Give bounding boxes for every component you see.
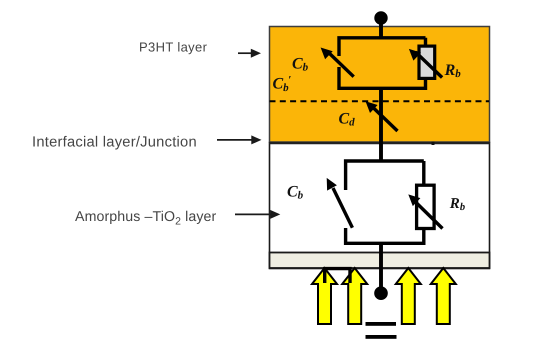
lower parallel loop wires bbox=[346, 161, 424, 243]
capacitor Cb upper arrow bbox=[321, 48, 354, 77]
resistor Rb upper arrow bbox=[409, 49, 442, 78]
capacitor Cd arrow bbox=[366, 101, 398, 131]
capacitor Cb lower arrow bbox=[327, 178, 353, 228]
arrow to Interfacial layer bbox=[217, 135, 262, 144]
illumination arrow 3 bbox=[396, 268, 421, 324]
wire lower loop to bottom terminal bbox=[379, 242, 383, 289]
contact bracket bbox=[325, 269, 350, 283]
resistor Rb lower bbox=[417, 185, 435, 228]
resistor Rb upper bbox=[419, 46, 435, 78]
arrow to P3HT layer bbox=[238, 49, 261, 58]
P3HT layer box bbox=[270, 27, 490, 143]
wire top terminal to upper loop bbox=[379, 22, 383, 38]
illumination arrow 1 bbox=[312, 268, 337, 324]
svg-text:Cb′: Cb′ bbox=[273, 75, 292, 95]
svg-text:Amorphus –TiO2 layer: Amorphus –TiO2 layer bbox=[75, 209, 217, 228]
node top terminal bbox=[374, 11, 387, 24]
resistor Rb lower arrow bbox=[408, 194, 442, 228]
wire upper loop to lower loop bbox=[379, 87, 383, 162]
junction border line bbox=[269, 142, 490, 144]
svg-text:P3HT layer: P3HT layer bbox=[139, 39, 208, 54]
node bottom terminal bbox=[374, 286, 388, 300]
illumination arrow 4 bbox=[431, 268, 456, 324]
dashed junction line bbox=[270, 100, 490, 102]
Amorphous TiO2 layer box bbox=[270, 143, 490, 269]
illumination arrow 2 bbox=[342, 268, 367, 324]
bottom electrode strip bbox=[270, 253, 490, 269]
upper parallel loop wires bbox=[339, 38, 426, 89]
arrow to TiO2 layer bbox=[235, 210, 280, 219]
stray mark node bbox=[432, 142, 435, 145]
svg-text:Interfacial layer/Junction: Interfacial layer/Junction bbox=[32, 134, 197, 150]
ground bar 1 bbox=[366, 322, 397, 326]
ground bar 2 bbox=[366, 335, 397, 339]
